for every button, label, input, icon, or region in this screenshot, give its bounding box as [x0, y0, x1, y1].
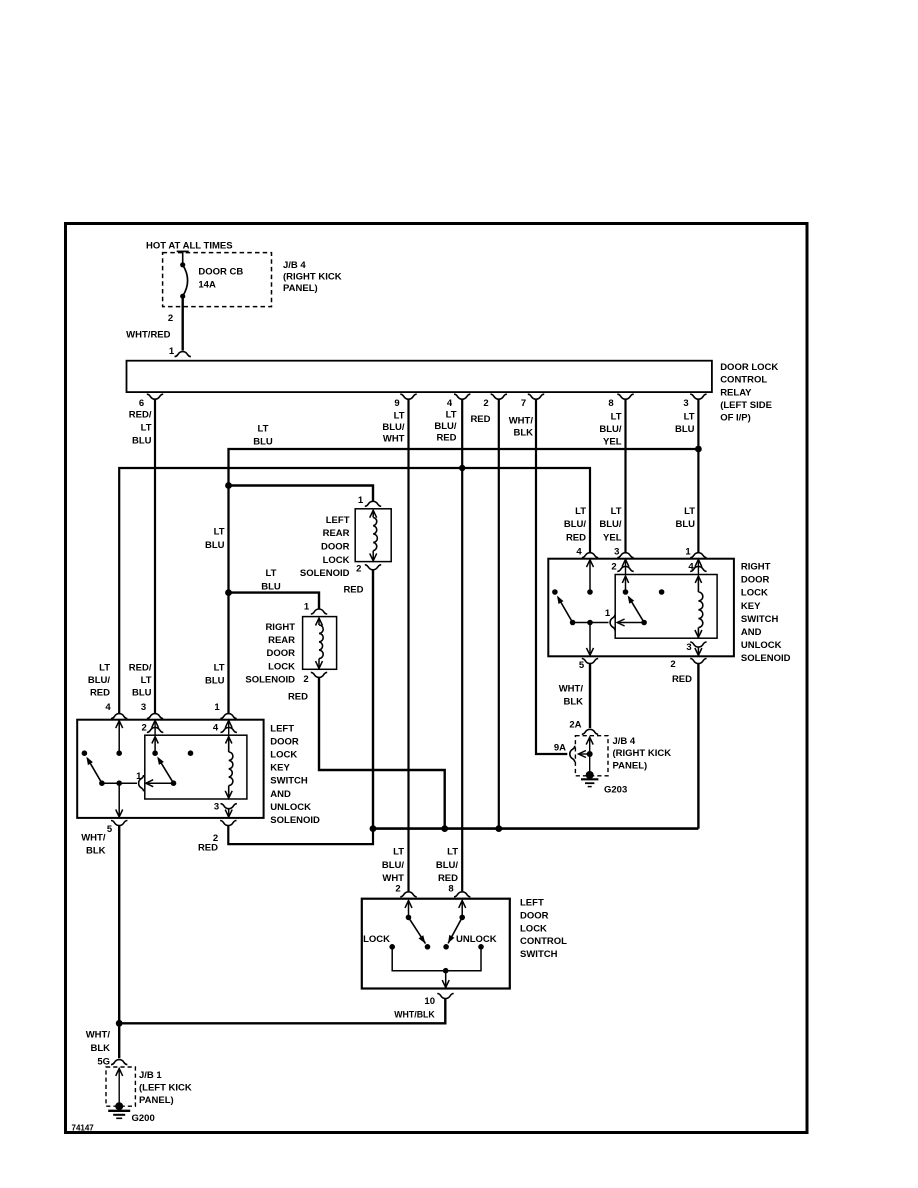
svg-text:YEL: YEL	[603, 532, 622, 543]
node WHT/BLK junction	[116, 1020, 123, 1027]
svg-text:1: 1	[685, 547, 691, 558]
junction block J/B 4 dashed box (lower)	[575, 736, 608, 776]
wire LT BLU horizontal bus	[229, 449, 699, 713]
svg-text:LT: LT	[141, 423, 152, 434]
junction block J/B 1 dashed box	[106, 1067, 135, 1106]
svg-text:UNLOCK: UNLOCK	[270, 802, 311, 813]
svg-text:LT: LT	[611, 412, 622, 423]
relay pin 4 connector	[454, 394, 470, 399]
svg-text:RELAY: RELAY	[720, 387, 752, 398]
svg-text:9A: 9A	[554, 743, 566, 754]
wire into J/B1	[118, 1023, 120, 1058]
left inner resting contact	[188, 750, 194, 756]
svg-text:DOOR: DOOR	[270, 737, 299, 748]
svg-text:PANEL): PANEL)	[283, 283, 318, 294]
junction block J/B 4 dashed box (top)	[163, 253, 272, 307]
relay pin 9 connector	[400, 394, 416, 399]
relay pin 7 connector	[528, 394, 544, 399]
svg-text:KEY: KEY	[270, 763, 290, 774]
wire LT BLU/YEL relay pin8 to right key switch pin3	[624, 399, 626, 552]
svg-text:LT: LT	[447, 847, 458, 858]
svg-text:BLU: BLU	[132, 436, 152, 447]
wire LT BLU/WHT relay pin9 to door lock control switch pin2	[407, 399, 409, 891]
svg-text:DOOR LOCK: DOOR LOCK	[720, 362, 778, 373]
svg-text:74147: 74147	[72, 1124, 95, 1133]
connector pin 5 right key switch bottom	[582, 659, 598, 664]
connector pin 10 control switch	[437, 994, 453, 999]
svg-text:RED: RED	[343, 585, 363, 596]
right unlock solenoid coil	[695, 576, 701, 583]
svg-text:1: 1	[304, 602, 310, 613]
wire LT BLU branch to left rear solenoid pin1	[229, 486, 374, 501]
svg-text:BLK: BLK	[513, 428, 533, 439]
svg-text:LEFT: LEFT	[270, 724, 294, 735]
svg-text:8: 8	[448, 884, 453, 895]
svg-text:UNLOCK: UNLOCK	[741, 640, 782, 651]
right inner switch arm	[641, 620, 647, 626]
left key switch wiper common wire	[102, 782, 137, 784]
svg-text:WHT/: WHT/	[81, 833, 106, 844]
svg-text:CONTROL: CONTROL	[520, 936, 567, 947]
svg-text:G203: G203	[604, 785, 627, 796]
J/B1 internal ground wire	[116, 1069, 123, 1076]
svg-text:PANEL): PANEL)	[613, 760, 648, 771]
node junction LT BLU/RED bus / relay pin4	[459, 465, 465, 471]
svg-text:SWITCH: SWITCH	[520, 949, 558, 960]
svg-text:3: 3	[214, 802, 219, 813]
svg-text:LT: LT	[394, 411, 405, 422]
left inner switch arm	[171, 780, 177, 786]
svg-text:10: 10	[424, 996, 435, 1007]
svg-text:BLK: BLK	[90, 1043, 110, 1054]
svg-text:4: 4	[688, 562, 694, 573]
right inner switch pin2 connector	[625, 559, 627, 575]
svg-text:LT: LT	[214, 663, 225, 674]
svg-text:YEL: YEL	[603, 437, 622, 448]
svg-text:BLU: BLU	[253, 437, 273, 448]
right inner switch pin2 wire	[622, 576, 628, 583]
svg-text:CONTROL: CONTROL	[720, 375, 767, 386]
svg-text:RED: RED	[566, 532, 586, 543]
left inner switch pin2 connector	[154, 720, 156, 736]
solenoid coil right rear	[316, 618, 323, 625]
svg-text:J/B 1: J/B 1	[139, 1070, 162, 1081]
svg-text:DOOR CB: DOOR CB	[198, 267, 243, 278]
svg-text:RIGHT: RIGHT	[741, 562, 771, 573]
svg-text:WHT/: WHT/	[509, 416, 534, 427]
svg-text:DOOR: DOOR	[520, 910, 549, 921]
ground G200	[115, 1102, 123, 1110]
svg-text:BLU: BLU	[675, 519, 695, 530]
svg-text:LT: LT	[99, 663, 110, 674]
circuit breaker DOOR CB 14A	[177, 250, 189, 252]
svg-text:REAR: REAR	[323, 528, 350, 539]
svg-text:LOCK: LOCK	[270, 750, 297, 761]
svg-text:2: 2	[483, 398, 488, 409]
svg-text:LOCK: LOCK	[363, 934, 390, 945]
svg-text:UNLOCK: UNLOCK	[456, 934, 497, 945]
control switch lock arm	[409, 917, 426, 943]
relay pin 3 connector	[690, 394, 706, 399]
wire RED right key switch pin2 to red bus	[697, 664, 699, 829]
svg-text:WHT/RED: WHT/RED	[126, 330, 170, 341]
svg-text:RED: RED	[672, 674, 692, 685]
svg-text:4: 4	[213, 723, 219, 734]
svg-text:J/B 4: J/B 4	[613, 736, 636, 747]
svg-text:1: 1	[605, 608, 611, 619]
svg-text:BLU/: BLU/	[599, 424, 622, 435]
svg-text:HOT AT ALL TIMES: HOT AT ALL TIMES	[146, 241, 233, 252]
svg-text:OF I/P): OF I/P)	[720, 413, 751, 424]
svg-text:REAR: REAR	[268, 635, 295, 646]
wire RED bus horizontal	[373, 827, 698, 830]
relay pin 8 connector	[617, 394, 633, 399]
right door lock key switch outer box	[548, 559, 734, 657]
relay box DOOR LOCK CONTROL RELAY	[127, 361, 712, 392]
ground G203	[586, 771, 594, 779]
svg-text:3: 3	[683, 398, 688, 409]
svg-text:2A: 2A	[569, 720, 581, 731]
svg-text:SOLENOID: SOLENOID	[245, 675, 295, 686]
svg-text:BLK: BLK	[563, 697, 583, 708]
relay pin 6 connector	[147, 394, 163, 399]
connector pin 2 right key switch bottom	[690, 659, 706, 664]
svg-text:4: 4	[105, 702, 111, 713]
svg-text:SOLENOID: SOLENOID	[741, 653, 791, 664]
svg-text:SOLENOID: SOLENOID	[270, 815, 320, 826]
svg-text:SWITCH: SWITCH	[270, 776, 308, 787]
svg-text:AND: AND	[741, 627, 762, 638]
svg-text:4: 4	[576, 547, 582, 558]
svg-text:2: 2	[356, 564, 361, 575]
wire WHT/BLK left key switch pin5 down	[118, 826, 120, 1024]
wire WHT/BLK control switch pin10 to ground junction	[119, 999, 445, 1024]
svg-text:2: 2	[611, 562, 616, 573]
wire RED left key switch pin2 to red bus	[228, 826, 373, 844]
node branch to left rear door lock solenoid	[225, 482, 232, 489]
svg-text:AND: AND	[270, 789, 291, 800]
right inner resting contact	[659, 589, 665, 595]
svg-text:3: 3	[614, 547, 619, 558]
node red bus / relay pin2	[495, 825, 502, 832]
svg-text:14A: 14A	[198, 279, 216, 290]
wire LT BLU/RED relay pin4 to control switch pin8	[461, 399, 463, 891]
connector pin 2 left key switch bottom	[220, 821, 236, 826]
svg-text:LEFT: LEFT	[520, 898, 544, 909]
wire RED relay pin2 down to red bus	[498, 399, 500, 828]
wire RED left rear solenoid pin2 to red bus	[372, 570, 374, 829]
svg-text:9: 9	[394, 398, 399, 409]
svg-text:BLU/: BLU/	[382, 422, 405, 433]
svg-text:(RIGHT KICK: (RIGHT KICK	[613, 748, 672, 759]
control switch pin2 wire	[405, 901, 412, 908]
left unlock solenoid coil	[226, 737, 232, 744]
left key switch inner box	[145, 735, 247, 799]
svg-text:2: 2	[303, 674, 308, 685]
svg-text:PANEL): PANEL)	[139, 1095, 174, 1106]
left key switch movable contact arm	[82, 750, 88, 756]
svg-text:SWITCH: SWITCH	[741, 614, 779, 625]
svg-text:WHT: WHT	[382, 873, 404, 884]
node red bus / left rear solenoid	[370, 825, 377, 832]
svg-text:LOCK: LOCK	[520, 923, 547, 934]
svg-text:BLK: BLK	[86, 846, 106, 857]
left key switch pin4 contact wire	[116, 721, 123, 728]
svg-text:WHT/: WHT/	[86, 1030, 111, 1041]
control switch common wire	[392, 947, 481, 971]
svg-text:BLU: BLU	[132, 688, 152, 699]
svg-text:LT: LT	[446, 410, 457, 421]
svg-text:8: 8	[608, 398, 613, 409]
right key switch wiper common wire	[573, 622, 609, 624]
svg-text:LT: LT	[611, 506, 622, 517]
svg-text:7: 7	[521, 398, 526, 409]
left inner switch pin2 wire	[152, 737, 158, 744]
svg-text:5: 5	[107, 824, 113, 835]
svg-text:RED: RED	[198, 843, 218, 854]
right key switch movable contact arm	[552, 589, 558, 595]
wire WHT/BLK right key switch pin5 to J/B4	[589, 664, 591, 728]
svg-text:J/B 4: J/B 4	[283, 260, 306, 271]
wire LT BLU relay pin3 to right key switch pin1	[697, 399, 699, 552]
node red bus / right rear solenoid	[441, 825, 448, 832]
svg-text:LT: LT	[684, 506, 695, 517]
svg-text:BLU/: BLU/	[436, 860, 459, 871]
svg-text:2: 2	[670, 659, 675, 670]
right unlock solenoid coil connector pin4 inner	[697, 559, 699, 575]
svg-text:LOCK: LOCK	[741, 588, 768, 599]
contact UNLOCK	[478, 944, 484, 950]
svg-text:1: 1	[358, 495, 364, 506]
svg-text:1: 1	[169, 346, 175, 357]
svg-text:3: 3	[686, 642, 691, 653]
left rear door lock solenoid box	[355, 509, 391, 562]
svg-text:LT: LT	[258, 424, 269, 435]
svg-text:RED: RED	[436, 433, 456, 444]
svg-text:G200: G200	[132, 1113, 155, 1124]
svg-text:(LEFT KICK: (LEFT KICK	[139, 1083, 192, 1094]
svg-text:BLU/: BLU/	[599, 519, 622, 530]
svg-text:RED/: RED/	[129, 410, 152, 421]
svg-text:3: 3	[141, 702, 146, 713]
J/B4 internal ground wire	[586, 737, 593, 744]
svg-text:KEY: KEY	[741, 601, 761, 612]
wire RED/LT BLU relay pin6 to left key switch pin3	[154, 399, 156, 713]
svg-text:BLU: BLU	[675, 424, 695, 435]
wire pin2 WHT/RED from circuit breaker	[181, 296, 183, 350]
node junction LT BLU bus / relay pin3	[695, 446, 702, 453]
svg-text:LT: LT	[266, 568, 277, 579]
svg-text:LT: LT	[214, 527, 225, 538]
svg-text:LOCK: LOCK	[323, 555, 350, 566]
svg-text:DOOR: DOOR	[741, 575, 770, 586]
left door lock key switch outer box	[77, 720, 263, 818]
svg-text:RED: RED	[288, 692, 308, 703]
svg-text:6: 6	[139, 398, 144, 409]
svg-text:RED/: RED/	[129, 663, 152, 674]
svg-text:5: 5	[579, 660, 585, 671]
control switch unlock arm	[448, 917, 462, 943]
svg-text:WHT/: WHT/	[559, 684, 584, 695]
svg-text:SOLENOID: SOLENOID	[300, 568, 350, 579]
svg-text:DOOR: DOOR	[321, 542, 350, 553]
svg-text:4: 4	[447, 398, 453, 409]
svg-text:DOOR: DOOR	[267, 648, 296, 659]
svg-text:LT: LT	[393, 847, 404, 858]
node branch to right rear door lock solenoid	[225, 589, 232, 596]
wire RED right rear solenoid pin2 to red bus	[319, 678, 445, 829]
svg-text:BLU/: BLU/	[382, 860, 405, 871]
wire LT BLU branch to right rear solenoid pin1	[229, 593, 320, 609]
svg-text:WHT: WHT	[383, 434, 405, 445]
svg-text:WHT/BLK: WHT/BLK	[394, 1010, 435, 1020]
svg-text:BLU: BLU	[205, 540, 225, 551]
svg-text:1: 1	[214, 702, 220, 713]
svg-text:RIGHT: RIGHT	[265, 622, 295, 633]
left door lock control switch box	[362, 899, 510, 989]
svg-text:BLU: BLU	[205, 676, 225, 687]
svg-text:(RIGHT KICK: (RIGHT KICK	[283, 272, 342, 283]
svg-text:5G: 5G	[97, 1057, 110, 1068]
svg-text:RED: RED	[470, 414, 490, 425]
svg-text:BLU: BLU	[261, 582, 281, 593]
svg-text:2: 2	[142, 723, 147, 734]
control switch pin8 wire	[459, 901, 466, 908]
relay pin 2 connector	[491, 394, 507, 399]
svg-text:LOCK: LOCK	[268, 661, 295, 672]
svg-text:BLU/: BLU/	[564, 519, 587, 530]
svg-text:2: 2	[395, 884, 400, 895]
wire LT BLU/RED horizontal bus	[119, 468, 590, 713]
svg-text:LT: LT	[141, 675, 152, 686]
contact LOCK	[389, 944, 395, 950]
svg-text:(LEFT SIDE: (LEFT SIDE	[720, 400, 772, 411]
right key switch inner box	[615, 575, 717, 639]
page border frame	[66, 224, 808, 1133]
left unlock solenoid coil connector pin4 inner	[228, 720, 230, 736]
connector pin 5 left key switch bottom	[111, 821, 127, 826]
svg-text:BLU/: BLU/	[88, 675, 111, 686]
svg-text:RED: RED	[90, 688, 110, 699]
right key switch pin4 contact wire	[587, 560, 594, 567]
svg-text:LT: LT	[684, 412, 695, 423]
svg-text:LT: LT	[575, 506, 586, 517]
svg-text:LEFT: LEFT	[326, 515, 350, 526]
right rear door lock solenoid box	[303, 617, 337, 670]
wire WHT/BLK relay pin7 to J/B4 ground	[536, 399, 567, 754]
solenoid coil left rear	[370, 510, 377, 517]
svg-text:2: 2	[168, 313, 173, 324]
svg-text:BLU/: BLU/	[434, 421, 457, 432]
